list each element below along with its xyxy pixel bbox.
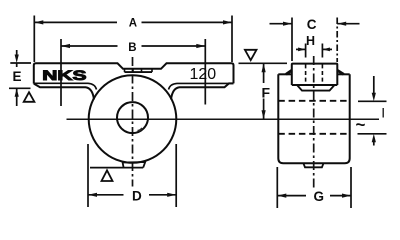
hole hidden line left <box>305 64 307 84</box>
dimension C <box>270 18 360 63</box>
svg-text:F: F <box>262 84 271 100</box>
center band divider 4 <box>151 69 153 72</box>
plate bottom left inner line <box>34 83 97 89</box>
bore hidden line upper <box>278 100 349 102</box>
dimension B <box>61 39 205 106</box>
left shoulder <box>278 73 292 75</box>
dimension I ticks <box>358 76 387 146</box>
center band bottom line <box>125 71 153 73</box>
svg-text:~: ~ <box>356 115 366 134</box>
surface triangle below E <box>24 92 35 102</box>
vertical centerline right view <box>313 56 315 188</box>
center band divider 2 <box>132 69 134 72</box>
center band divider 1 <box>124 69 126 72</box>
plate outline <box>34 63 234 83</box>
svg-text:C: C <box>307 17 317 32</box>
svg-text:A: A <box>129 18 137 30</box>
plate bottom right inner line <box>169 83 234 89</box>
right view block outline <box>278 74 349 163</box>
left chamfer wedge <box>286 70 292 74</box>
svg-text:E: E <box>13 69 22 84</box>
horizontal centerline <box>67 118 380 120</box>
vertical centerline left view <box>132 57 134 187</box>
svg-text:NKS: NKS <box>42 67 86 83</box>
surface triangle at bottom tab <box>102 170 113 181</box>
right chamfer wedge <box>337 70 343 74</box>
boss outline <box>292 64 338 85</box>
svg-text:B: B <box>128 42 136 54</box>
dimension H <box>296 44 332 58</box>
bore hidden line lower <box>278 133 349 135</box>
bottom tab left view <box>90 162 145 168</box>
dimension G <box>277 167 351 208</box>
svg-text:G: G <box>314 189 325 204</box>
F reference line <box>239 62 288 64</box>
dimension A <box>34 16 232 63</box>
plate bottom left pad <box>34 84 94 100</box>
dimension E <box>9 50 31 106</box>
boss collar trapezoid <box>297 85 335 91</box>
bearing housing circle <box>89 75 177 163</box>
svg-text:D: D <box>132 188 142 203</box>
dimension D <box>88 144 176 207</box>
mark inside bore <box>138 128 143 131</box>
svg-text:H: H <box>306 34 315 48</box>
center band divider 3 <box>141 69 143 72</box>
bore circle <box>117 102 148 133</box>
boss bottom line <box>292 84 338 86</box>
inverted triangle finish mark <box>245 50 257 60</box>
svg-text:I: I <box>381 104 385 120</box>
right shoulder <box>337 73 349 75</box>
dimension F <box>263 63 265 119</box>
bottom tab right view <box>303 163 323 167</box>
hole hidden line right <box>321 64 323 84</box>
plate bottom right pad <box>171 83 234 99</box>
svg-text:120: 120 <box>190 66 217 83</box>
